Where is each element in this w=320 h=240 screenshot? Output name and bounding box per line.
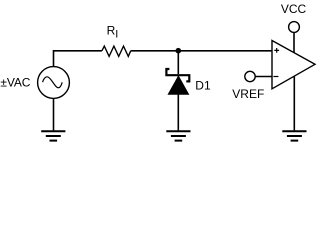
svg-text:±VAC: ±VAC <box>0 76 30 90</box>
ground (source) <box>41 131 65 140</box>
resistor RI <box>102 46 131 56</box>
svg-text:VCC: VCC <box>281 2 307 16</box>
ground (diode) <box>166 131 190 140</box>
terminal VCC <box>289 22 300 33</box>
wire: diode to ground <box>177 94 179 130</box>
svg-text:D1: D1 <box>195 79 211 93</box>
wire: source bottom to ground <box>53 98 55 130</box>
junction node <box>176 48 182 54</box>
zener diode D1 <box>166 69 189 94</box>
AC source VAC <box>38 67 70 99</box>
wire: source top up and right to resistor <box>54 51 102 67</box>
svg-text:VREF: VREF <box>232 87 264 101</box>
wire: op-amp bottom edge to ground <box>293 77 295 131</box>
wire: VREF terminal to op-amp - input <box>255 76 272 78</box>
terminal VREF <box>245 71 255 81</box>
ground (op-amp) <box>282 131 306 140</box>
wire: resistor to op-amp + input <box>131 50 272 52</box>
wire: junction down to diode <box>177 51 179 74</box>
wire: VCC terminal to op-amp top edge <box>293 32 295 52</box>
op-amp U1 <box>272 41 315 89</box>
